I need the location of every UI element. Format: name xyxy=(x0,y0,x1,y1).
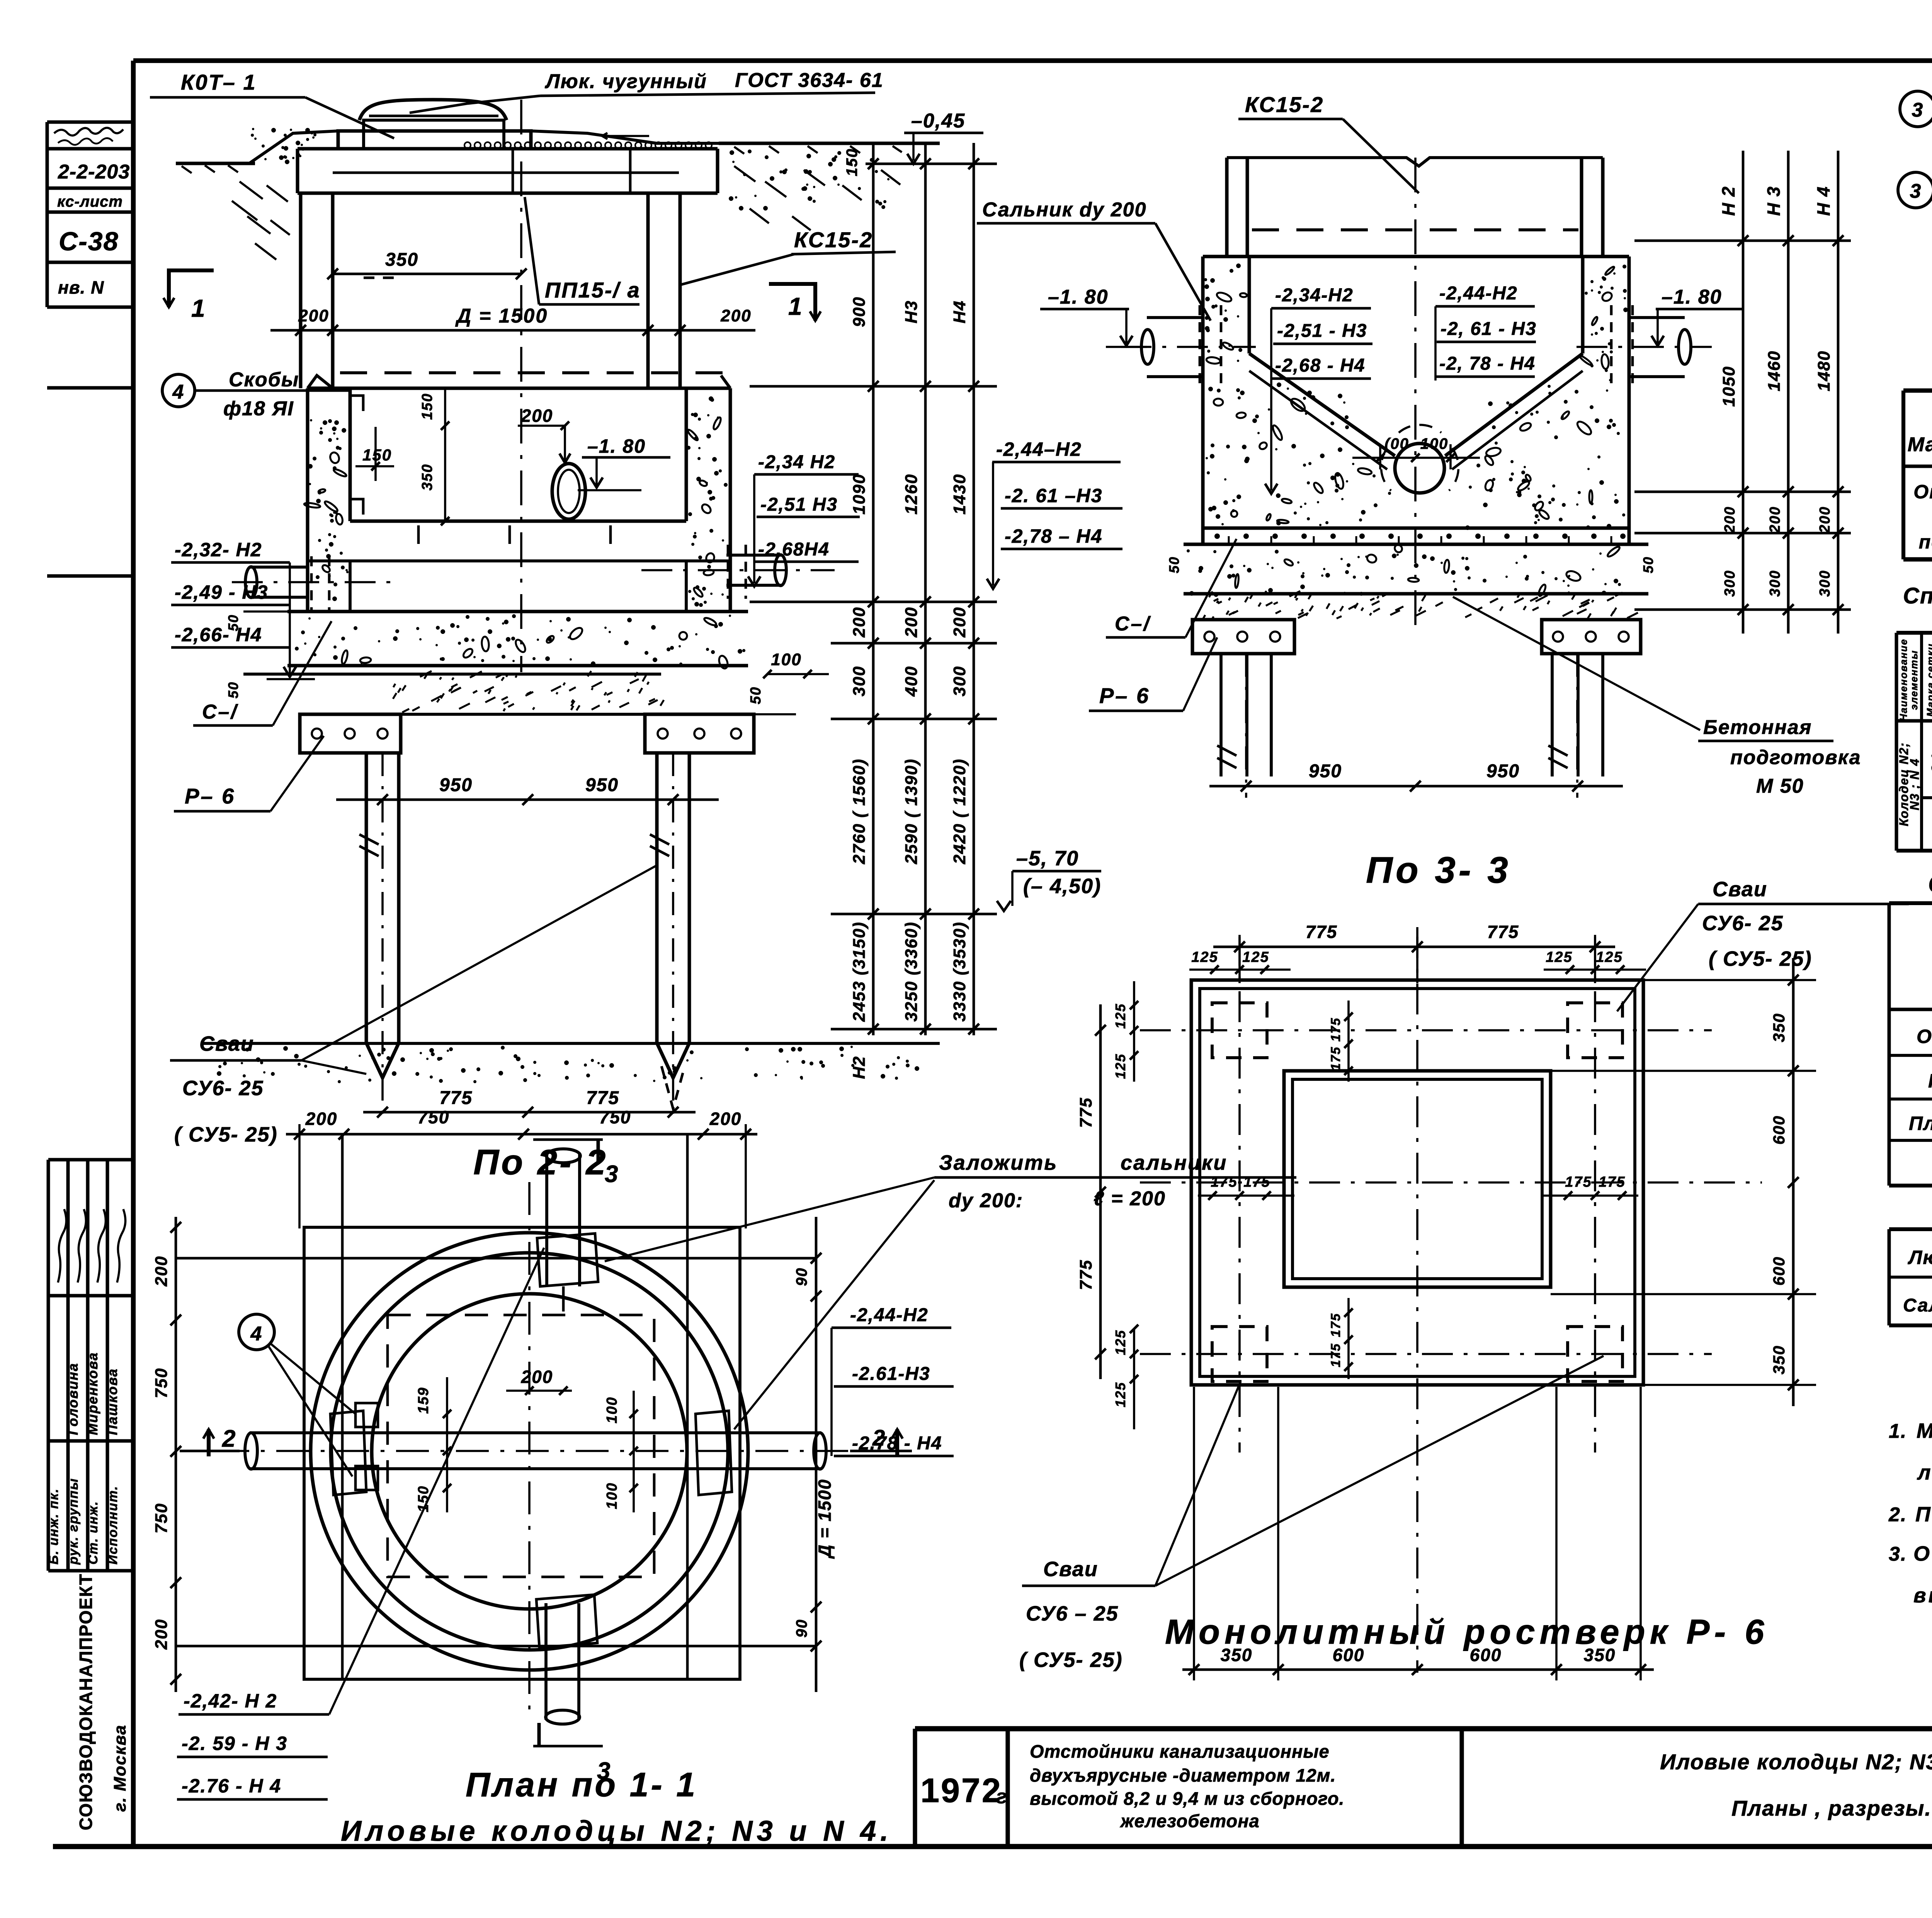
dimension 950 950 between piles xyxy=(336,798,719,801)
vertical pipe bottom stub xyxy=(544,1603,548,1720)
svg-text:ГОСТ 3634- 61: ГОСТ 3634- 61 xyxy=(735,69,884,92)
svg-text:200: 200 xyxy=(1817,506,1833,533)
svg-text:Монолитный ростверк Р- 6: Монолитный ростверк Р- 6 xyxy=(1165,1613,1769,1651)
table: reinforcement specification grid xyxy=(1896,633,1932,851)
svg-text:-2,32- Н2: -2,32- Н2 xyxy=(175,539,262,561)
svg-text:Заложить: Заложить xyxy=(939,1151,1058,1174)
grillage 175 175 dims vertical bottom xyxy=(1347,1298,1350,1379)
svg-text:Н2: Н2 xyxy=(850,1056,869,1079)
grillage R-6 block right xyxy=(645,714,754,753)
svg-text:Люк. чугунный: Люк. чугунный xyxy=(544,70,707,93)
note 3 xyxy=(1889,1542,1932,1607)
svg-text:высотой 8. 2 м.: высотой 8. 2 м. xyxy=(1913,1584,1932,1607)
svg-text:150: 150 xyxy=(844,148,861,177)
svg-text:950: 950 xyxy=(1309,761,1342,781)
svg-text:125: 125 xyxy=(1546,949,1572,965)
svg-text:200: 200 xyxy=(521,1367,553,1387)
table: specification of steel per well - grid xyxy=(1903,391,1932,559)
svg-text:Обозначения в скобках дан: Обозначения в скобках даны для отстойник… xyxy=(1913,1542,1932,1565)
bed preparation layer xyxy=(243,673,661,676)
svg-text:элементы: элементы xyxy=(1908,650,1920,710)
svg-text:1090: 1090 xyxy=(850,474,869,515)
svg-text:(– 4,50): (– 4,50) xyxy=(1023,875,1101,898)
svg-text:-2,34 Н2: -2,34 Н2 xyxy=(758,452,835,472)
svg-text:СУ6- 25: СУ6- 25 xyxy=(1702,912,1784,935)
svg-text:4: 4 xyxy=(250,1323,263,1345)
table: precast row opornoe koltso xyxy=(1917,1024,1932,1048)
plan top dimension chain 200 750 750 200 xyxy=(286,1133,757,1136)
svg-text:Миренкова: Миренкова xyxy=(85,1352,100,1435)
svg-text:Головина: Головина xyxy=(65,1362,81,1435)
pipe opening ellipse in chamber xyxy=(552,464,585,519)
staple marks on wall face xyxy=(350,396,363,515)
svg-text:С-38: С-38 xyxy=(59,227,119,256)
svg-text:( СУ5- 25): ( СУ5- 25) xyxy=(1709,947,1812,970)
outlet pipe right xyxy=(726,554,781,557)
hopper slopes xyxy=(1249,353,1395,456)
svg-text:1430: 1430 xyxy=(950,474,969,515)
table: specification of steel - header texts xyxy=(1908,390,1932,468)
svg-text:200: 200 xyxy=(709,1109,742,1129)
plan small dims 150 150 xyxy=(446,1377,448,1512)
right pipe stub 3-3 xyxy=(1629,316,1685,319)
svg-text:350: 350 xyxy=(385,250,418,270)
svg-text:300: 300 xyxy=(1767,570,1783,596)
title block sheet name xyxy=(1660,1750,1932,1820)
svg-text:Исполнит.: Исполнит. xyxy=(105,1485,120,1565)
grillage left dimension 775 775 xyxy=(1099,1004,1102,1379)
svg-text:Н 4: Н 4 xyxy=(1813,186,1833,216)
table: steel elements row luk xyxy=(1908,1245,1932,1268)
svg-text:125: 125 xyxy=(1596,949,1622,965)
svg-text:Сваи: Сваи xyxy=(1713,878,1767,901)
slab lower edge xyxy=(1184,592,1648,596)
svg-text:рук. группы: рук. группы xyxy=(66,1478,81,1565)
chamber floor slab xyxy=(287,610,748,613)
svg-text:125: 125 xyxy=(1112,1382,1128,1407)
svg-text:350: 350 xyxy=(1770,1345,1788,1374)
svg-text:Отстойники канализационны: Отстойники канализационные xyxy=(1030,1741,1330,1762)
svg-text:175: 175 xyxy=(1565,1174,1592,1190)
pile dashed squares xyxy=(1212,1003,1267,1058)
left margin upper stamp block xyxy=(47,122,133,576)
svg-text:Пашкова: Пашкова xyxy=(104,1368,120,1435)
left 50 marks xyxy=(243,610,307,613)
svg-text:750: 750 xyxy=(152,1503,171,1533)
note 1 xyxy=(1889,1419,1932,1484)
ground line left xyxy=(176,162,255,165)
svg-text:Ст. инж.: Ст. инж. xyxy=(86,1501,100,1565)
hopper inner walls xyxy=(1248,257,1251,353)
well rings: middle circle xyxy=(331,1253,728,1650)
svg-text:200: 200 xyxy=(1722,506,1738,533)
svg-text:г. Москва: г. Москва xyxy=(111,1724,129,1812)
well vertical centerline xyxy=(520,100,522,672)
svg-text:N3 ; N 4: N3 ; N 4 xyxy=(1908,758,1922,810)
svg-text:Марка сетки: Марка сетки xyxy=(1925,643,1932,717)
svg-text:3.: 3. xyxy=(1889,1543,1907,1565)
svg-text:90: 90 xyxy=(793,1619,810,1638)
grillage centerlines xyxy=(1238,935,1241,1453)
tangent square around well xyxy=(304,1227,740,1679)
pipe axis dash-dot horizontal xyxy=(216,1450,866,1452)
dimension 350 top xyxy=(333,273,521,275)
svg-text:2453 (3150): 2453 (3150) xyxy=(850,921,869,1022)
svg-text:350: 350 xyxy=(419,464,435,490)
svg-text:–5, 70: –5, 70 xyxy=(1016,847,1079,870)
svg-text:1460: 1460 xyxy=(1765,350,1784,391)
svg-text:–0,45: –0,45 xyxy=(911,110,965,132)
svg-text:175: 175 xyxy=(1328,1313,1343,1337)
svg-text:По 3- 3: По 3- 3 xyxy=(1366,849,1511,891)
svg-text:железобетона: железобетона xyxy=(1119,1811,1260,1831)
pile right dashed alternative tip xyxy=(662,1066,685,1109)
pipe circle at hopper bottom xyxy=(1395,443,1444,493)
table: steel elements grid xyxy=(1889,1229,1932,1325)
svg-text:Спецификация: Спецификация xyxy=(1928,870,1932,898)
svg-text:750: 750 xyxy=(418,1107,450,1127)
svg-text:Н3: Н3 xyxy=(902,300,921,323)
svg-text:г: г xyxy=(996,1785,1008,1808)
svg-text:775: 775 xyxy=(1077,1259,1095,1290)
svg-text:-2,78 – Н4: -2,78 – Н4 xyxy=(1005,525,1102,547)
grillage R-6 block left xyxy=(300,714,401,753)
svg-text:План по 1- 1: План по 1- 1 xyxy=(466,1765,697,1804)
svg-text:Сваи: Сваи xyxy=(1043,1558,1098,1581)
floor slab line under hopper xyxy=(1203,527,1629,530)
plan 1-1: circular well plan xyxy=(176,1134,866,1724)
cover slab PP15-1a xyxy=(298,147,718,151)
sleeve on left pipe crossing xyxy=(330,1411,366,1495)
svg-text:175: 175 xyxy=(1599,1174,1625,1190)
plan left dimension chain xyxy=(175,1217,177,1692)
organization name vertical stamp xyxy=(76,1573,129,1830)
grillage right dimension 350 600 600 350 xyxy=(1792,958,1795,1406)
section mark 1 left xyxy=(169,270,214,307)
svg-text:175: 175 xyxy=(1243,1174,1270,1190)
ground line right xyxy=(719,142,940,145)
soil mound outline xyxy=(216,131,338,163)
interior chord lines xyxy=(176,1257,816,1260)
svg-text:1260: 1260 xyxy=(902,474,921,515)
svg-text:200: 200 xyxy=(720,306,751,325)
sleeve on right pipe crossing xyxy=(696,1411,732,1495)
svg-text:Сваи: Сваи xyxy=(199,1032,254,1055)
upper casing walls xyxy=(1225,158,1229,257)
svg-text:сальники: сальники xyxy=(1121,1151,1227,1174)
svg-text:Марка: Марка xyxy=(1908,433,1932,456)
pipe axis dash-dot left xyxy=(232,581,398,583)
grillage top dimension 775 775 xyxy=(1213,946,1615,948)
svg-text:3330 (3530): 3330 (3530) xyxy=(950,921,969,1021)
grillage outer square xyxy=(1191,980,1643,1385)
plan right dimension chain with 90s xyxy=(815,1217,818,1692)
grillage 175 175 dims horizontal xyxy=(1198,1194,1294,1197)
svg-text:775: 775 xyxy=(1306,922,1338,942)
svg-text:Бетонная: Бетонная xyxy=(1703,716,1812,739)
svg-text:175: 175 xyxy=(1328,1018,1343,1042)
svg-text:600: 600 xyxy=(1770,1115,1788,1145)
svg-text:175: 175 xyxy=(1211,1174,1237,1190)
svg-text:125: 125 xyxy=(1112,1003,1128,1029)
inlet pipe left xyxy=(250,566,309,569)
svg-text:200: 200 xyxy=(850,606,869,637)
svg-text:1.: 1. xyxy=(1889,1420,1907,1442)
pile stubs under 3-3 xyxy=(1219,654,1223,776)
pile right xyxy=(655,753,659,1043)
staples callout circled 4 xyxy=(162,374,195,407)
svg-text:3: 3 xyxy=(605,1161,619,1187)
svg-text:3: 3 xyxy=(1910,180,1922,202)
svg-text:Сальник dу 200: Сальник dу 200 xyxy=(982,199,1147,221)
pipe axis dash-dot right xyxy=(641,569,835,571)
lower chamber top line with chamfers xyxy=(308,375,333,388)
svg-text:350: 350 xyxy=(1770,1013,1788,1042)
svg-text:высотой 8,2 и 9,4 м из сб: высотой 8,2 и 9,4 м из сборного. xyxy=(1030,1788,1345,1809)
svg-text:-2,44-Н2: -2,44-Н2 xyxy=(850,1305,929,1325)
svg-text:-2, 78 - Н4: -2, 78 - Н4 xyxy=(1439,353,1536,374)
svg-text:нв. N: нв. N xyxy=(58,277,104,297)
wide chamber block outline xyxy=(1203,255,1629,258)
svg-text:300: 300 xyxy=(1722,570,1738,596)
svg-text:125: 125 xyxy=(1112,1053,1128,1079)
svg-text:К0Т– 1: К0Т– 1 xyxy=(181,70,257,94)
svg-text:Спецификация арматуры: Спецификация арматуры xyxy=(1903,583,1932,608)
svg-text:Р– 6: Р– 6 xyxy=(1099,683,1150,708)
dimension D=1500 xyxy=(270,329,755,332)
left pipe stub 3-3 xyxy=(1147,316,1203,319)
soil hatch left of chamber xyxy=(232,182,290,260)
svg-text:dу 200:: dу 200: xyxy=(949,1189,1023,1212)
level dashes inside chamber xyxy=(364,277,394,279)
svg-text:200: 200 xyxy=(152,1619,171,1650)
table: precast row koltso xyxy=(1928,1069,1932,1093)
svg-text:-2,44-Н2: -2,44-Н2 xyxy=(1439,283,1518,304)
plate underside dashed xyxy=(1252,228,1578,231)
svg-text:-2.61-Н3: -2.61-Н3 xyxy=(852,1364,930,1384)
section 2-2 right dimension chains xyxy=(750,143,1122,1079)
svg-text:-2. 61 –Н3: -2. 61 –Н3 xyxy=(1005,485,1102,506)
svg-text:125: 125 xyxy=(1191,949,1218,965)
svg-text:50: 50 xyxy=(225,681,241,698)
svg-text:2420 ( 1220): 2420 ( 1220) xyxy=(950,758,969,865)
center vertical dash-dot line 3-3 xyxy=(1414,158,1417,626)
grillage blocks under 3-3 xyxy=(1192,620,1294,654)
concrete speckles in walls of 3-3 xyxy=(1204,263,1250,525)
svg-text:Опорное кольцо: Опорное кольцо xyxy=(1917,1026,1932,1047)
dimension 100 100 pipe offset xyxy=(1379,444,1381,469)
svg-text:4: 4 xyxy=(172,381,185,403)
svg-text:2.: 2. xyxy=(1888,1503,1907,1526)
table: steel elements row salnik xyxy=(1903,1294,1932,1317)
svg-text:-2.78 - Н4: -2.78 - Н4 xyxy=(852,1433,942,1454)
plan of monolithic grillage R-6 xyxy=(1140,927,1762,1673)
svg-text:50: 50 xyxy=(1166,556,1182,573)
slab bottom line xyxy=(1184,543,1648,546)
svg-text:СУ6- 25: СУ6- 25 xyxy=(182,1077,264,1100)
svg-text:Плиту ПП15- / а смотрите: Плиту ПП15- / а смотрите на листе АС- 37 xyxy=(1915,1503,1932,1526)
horizontal pipe through plan xyxy=(250,1431,821,1434)
svg-text:Сальник ℓкор= 200: Сальник ℓкор= 200 xyxy=(1903,1295,1932,1316)
svg-text:Плита покрытия: Плита покрытия xyxy=(1909,1113,1932,1134)
svg-text:С–/: С–/ xyxy=(202,701,238,723)
svg-text:775: 775 xyxy=(439,1088,473,1108)
svg-text:300: 300 xyxy=(850,666,869,696)
svg-text:600: 600 xyxy=(1770,1256,1788,1286)
svg-text:подготовка: подготовка xyxy=(1730,746,1861,769)
section marks 3 in plan xyxy=(533,1138,603,1141)
svg-text:2590 ( 1390): 2590 ( 1390) xyxy=(902,758,921,865)
pile left xyxy=(365,753,368,1043)
chamber interior floor line xyxy=(350,520,686,523)
svg-text:-2,51 - Н3: -2,51 - Н3 xyxy=(1277,321,1367,341)
upper ring wall right xyxy=(646,193,650,388)
svg-text:Местоположение колодцев N2: Местоположение колодцев N2: N3: N4 смотр… xyxy=(1917,1419,1932,1442)
table: specification of steel - row 2 xyxy=(1919,531,1932,556)
svg-text:Д = 1500: Д = 1500 xyxy=(815,1479,835,1559)
svg-text:3250 (3360): 3250 (3360) xyxy=(902,921,921,1021)
svg-text:Н4: Н4 xyxy=(950,300,969,323)
title block table xyxy=(915,1729,1932,1847)
table: reinforcement left rotated labels xyxy=(1897,742,1932,839)
circled 4 callout in plan xyxy=(239,1314,274,1350)
note 2 xyxy=(1888,1503,1932,1526)
mesh bar callout 3 (bottom) xyxy=(1898,172,1932,208)
section 3-3: lower chamber section xyxy=(1184,158,1648,544)
svg-text:Наименование: Наименование xyxy=(1898,639,1909,721)
svg-text:Иловые колодцы N2; N3 ;: Иловые колодцы N2; N3 ; N 4. xyxy=(1660,1750,1932,1774)
table: precast row plita pokrytiya xyxy=(1909,1112,1932,1136)
svg-text:Иловые колодцы N2; N3 и: Иловые колодцы N2; N3 и N 4. xyxy=(341,1815,893,1847)
grillage 175 175 dims vertical top xyxy=(1347,1001,1350,1082)
casing top break line xyxy=(1227,158,1603,166)
svg-text:кс-лист: кс-лист xyxy=(57,193,123,210)
svg-text:775: 775 xyxy=(1487,922,1519,942)
svg-text:-2,34-Н2: -2,34-Н2 xyxy=(1275,285,1354,306)
line at pipe level xyxy=(308,559,730,562)
svg-text:Б. инж. пк.: Б. инж. пк. xyxy=(46,1488,61,1565)
svg-text:200: 200 xyxy=(521,406,553,426)
svg-text:3: 3 xyxy=(1912,99,1924,121)
section 3-3 right dimension chains N2 N3 N4 xyxy=(1634,151,1851,634)
vertical centerline of plan xyxy=(528,1182,531,1715)
svg-text:775: 775 xyxy=(586,1088,619,1108)
dashed grillage square in plan xyxy=(388,1315,654,1577)
svg-text:125: 125 xyxy=(1242,949,1269,965)
svg-text:750: 750 xyxy=(599,1107,631,1127)
svg-text:150: 150 xyxy=(362,446,392,464)
svg-text:2: 2 xyxy=(222,1425,236,1452)
svg-text:двухъярусные -диаметром 12: двухъярусные -диаметром 12м. xyxy=(1030,1765,1336,1785)
svg-text:90: 90 xyxy=(793,1267,810,1286)
table: precast elements grid xyxy=(1889,903,1932,1186)
svg-text:-2,68Н4: -2,68Н4 xyxy=(758,539,830,560)
svg-text:Н 3: Н 3 xyxy=(1764,186,1784,216)
svg-text:-2.76 - Н 4: -2.76 - Н 4 xyxy=(182,1775,281,1797)
svg-text:100: 100 xyxy=(771,650,801,669)
table: specification of steel - row 1 xyxy=(1913,481,1932,524)
svg-text:СОЮЗВОДОКАНАЛПРОЕКТ: СОЮЗВОДОКАНАЛПРОЕКТ xyxy=(76,1573,96,1830)
svg-text:КС15-2: КС15-2 xyxy=(794,228,873,252)
svg-text:400: 400 xyxy=(902,666,921,697)
svg-text:ф18 ЯΙ: ф18 ЯΙ xyxy=(223,398,294,420)
section 2-2: well vertical section xyxy=(216,100,719,163)
svg-text:159: 159 xyxy=(415,1387,432,1413)
svg-text:125: 125 xyxy=(1112,1330,1128,1355)
svg-text:200: 200 xyxy=(1767,506,1783,533)
svg-text:175: 175 xyxy=(1328,1343,1343,1368)
section marks 2 in plan xyxy=(207,1429,211,1456)
table: reinforcement header texts xyxy=(1898,637,1932,721)
vertical dim 150/350 inside chamber xyxy=(444,389,446,521)
svg-text:Люк чугунный: Люк чугунный xyxy=(1908,1247,1932,1268)
svg-text:-2,42- Н 2: -2,42- Н 2 xyxy=(184,1690,277,1712)
svg-text:175: 175 xyxy=(1328,1046,1343,1071)
dimension 775 775 at pile tips xyxy=(363,1111,696,1114)
svg-text:1050: 1050 xyxy=(1719,366,1738,407)
svg-text:200: 200 xyxy=(305,1109,338,1129)
svg-text:100: 100 xyxy=(604,1396,620,1423)
svg-text:200: 200 xyxy=(152,1255,171,1286)
svg-text:СУ6 – 25: СУ6 – 25 xyxy=(1026,1602,1119,1625)
grillage bottom dimension 350 600 600 350 xyxy=(1182,1668,1654,1671)
svg-text:листы АС- 24 ; АС- 25: листы АС- 24 ; АС- 25 xyxy=(1917,1461,1932,1484)
well rings: inner circle xyxy=(372,1294,687,1609)
svg-text:Н 2: Н 2 xyxy=(1718,186,1738,216)
plan small dims 100 100 xyxy=(633,1391,635,1512)
svg-text:поз.: поз. xyxy=(1919,531,1932,553)
lower tier roof dashed line xyxy=(340,371,734,374)
svg-text:( СУ5- 25): ( СУ5- 25) xyxy=(1019,1648,1123,1672)
svg-text:100: 100 xyxy=(1420,435,1449,452)
svg-text:Планы , разрезы.: Планы , разрезы. xyxy=(1731,1796,1932,1820)
svg-text:–1. 80: –1. 80 xyxy=(587,435,646,457)
svg-text:775: 775 xyxy=(1077,1097,1095,1128)
svg-text:-2. 59 - Н 3: -2. 59 - Н 3 xyxy=(182,1733,287,1754)
svg-text:–1. 80: –1. 80 xyxy=(1662,286,1722,308)
dimension 950 950 under 3-3 xyxy=(1209,785,1623,788)
cast iron hatch dome cover xyxy=(359,100,507,120)
svg-text:950: 950 xyxy=(585,775,619,795)
svg-text:( СУ5- 25): ( СУ5- 25) xyxy=(174,1123,278,1146)
svg-text:50: 50 xyxy=(1640,556,1656,573)
svg-text:(00: (00 xyxy=(1384,435,1409,452)
grillage top small dims 125 125 xyxy=(1189,968,1291,971)
title block project description xyxy=(1030,1741,1345,1831)
svg-text:-2,44–Н2: -2,44–Н2 xyxy=(996,438,1082,460)
svg-text:По 2- 2: По 2- 2 xyxy=(473,1143,608,1182)
svg-text:900: 900 xyxy=(850,296,869,327)
svg-text:50: 50 xyxy=(225,614,241,631)
svg-text:750: 750 xyxy=(152,1368,171,1398)
lower chamber wall left xyxy=(306,388,310,612)
svg-text:М 50: М 50 xyxy=(1756,775,1804,797)
svg-text:1972: 1972 xyxy=(920,1771,1002,1809)
svg-text:Отд.: Отд. xyxy=(1913,481,1932,503)
svg-text:300: 300 xyxy=(950,666,969,696)
svg-text:Кольцо: Кольцо xyxy=(1928,1070,1932,1092)
svg-text:2760 ( 1560): 2760 ( 1560) xyxy=(850,758,869,865)
svg-text:2-2-203: 2-2-203 xyxy=(58,161,130,183)
svg-text:С–/: С–/ xyxy=(1115,613,1151,635)
mesh bar callout 3 (top) xyxy=(1900,91,1932,133)
svg-text:Д = 1500: Д = 1500 xyxy=(455,305,548,327)
soil hatch right of chamber xyxy=(734,166,900,230)
svg-text:200: 200 xyxy=(902,606,921,637)
svg-text:200: 200 xyxy=(950,606,969,637)
upper ring wall left xyxy=(299,193,303,388)
svg-text:1480: 1480 xyxy=(1815,350,1833,391)
